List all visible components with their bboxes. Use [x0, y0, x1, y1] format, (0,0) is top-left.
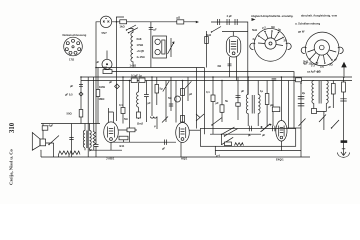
svg-text:3F: 3F — [284, 39, 287, 43]
resistor R20 vertical — [211, 95, 215, 102]
svg-text:50Ω: 50Ω — [67, 112, 73, 116]
S7 dot — [211, 124, 212, 125]
V2 top cap wire — [232, 32, 234, 37]
cap C8 — [340, 99, 346, 101]
wire y31.5 — [222, 31, 248, 33]
box switch S11 — [261, 124, 271, 132]
SA center key — [269, 42, 272, 45]
SA bottom arc — [256, 53, 285, 62]
power socket P1 pins — [65, 39, 80, 54]
pilot lamp L1 — [102, 59, 112, 69]
switch S3 — [49, 136, 59, 145]
SB center key — [320, 45, 325, 50]
resistor R8b on bus — [139, 78, 145, 83]
svg-text:µF 0,5: µF 0,5 — [65, 93, 73, 97]
svg-text:0,1µF 1µ: 0,1µF 1µ — [131, 74, 142, 78]
vertical x333 — [332, 81, 334, 109]
resistor R14 zigzag — [59, 151, 70, 155]
cap C9 filled — [341, 140, 348, 143]
V2 bottom leads — [230, 57, 237, 81]
svg-text:µF: µF — [70, 84, 74, 88]
switch S5 small — [162, 117, 168, 123]
cap C1c — [235, 19, 237, 25]
wire V1 left down — [96, 22, 100, 144]
right column vertical x301 — [300, 83, 302, 157]
resistor R10 vertical — [265, 94, 269, 105]
resistor R3 vertical in box — [162, 40, 165, 54]
speaker cone — [32, 133, 40, 151]
svg-text:2µ: 2µ — [302, 91, 305, 95]
power socket P1 outer — [64, 37, 83, 56]
cap C10 with rect — [42, 126, 48, 130]
switch S8 — [299, 119, 306, 127]
T3 bottom bar — [314, 103, 327, 130]
resistor R2 — [177, 20, 184, 24]
mid vertical x117 — [116, 17, 124, 121]
junction arrow on top wire — [196, 21, 199, 24]
vertical x273 — [272, 81, 274, 127]
V5 electrodes — [279, 126, 284, 139]
svg-text:5µ: 5µ — [278, 28, 281, 32]
resistor R19 — [119, 136, 128, 140]
wire y142.2 — [112, 141, 177, 143]
caps C7b — [298, 104, 305, 106]
mid vertical x238 — [237, 77, 239, 120]
vertical feeder x93.5 — [93, 77, 95, 124]
mid vertical x196.5 — [196, 68, 198, 129]
wire y150.6 — [215, 150, 301, 152]
svg-text:5Ω: 5Ω — [124, 117, 128, 121]
SA inner circle — [265, 38, 276, 49]
control box B2 — [200, 129, 295, 147]
ground wire — [343, 130, 345, 156]
svg-text:+6-Q5: +6-Q5 — [137, 49, 145, 53]
svg-text:ge W: ge W — [298, 30, 305, 34]
cap C1a — [218, 19, 220, 25]
R13 leads — [343, 77, 345, 130]
wire x206.5 down — [206, 31, 208, 68]
svg-text:4+15Ω: 4+15Ω — [137, 55, 146, 59]
box switch S4 — [222, 127, 238, 136]
svg-text:Netzanschlussung: Netzanschlussung — [63, 33, 87, 37]
SB pin labels — [303, 58, 338, 74]
svg-text:µF: µF — [248, 133, 252, 137]
mid vertical x222 — [221, 81, 223, 123]
resistor R4 vertical — [205, 37, 209, 44]
cap C11 — [165, 140, 167, 145]
mid vertical x123 — [122, 77, 124, 124]
V4 lead resistor upper — [181, 89, 185, 96]
svg-text:Abgleich-Empfindlichk. einstel: Abgleich-Empfindlichk. einstellg. — [251, 14, 294, 18]
resistor R18 on wire — [127, 128, 135, 132]
cap C18 between buses — [272, 79, 277, 80]
svg-text:µ2: µ2 — [189, 92, 193, 96]
T1 leads — [85, 124, 90, 151]
svg-text:17Ω: 17Ω — [69, 58, 75, 62]
component K4 — [312, 109, 317, 114]
svg-text:1MΩ: 1MΩ — [99, 85, 106, 89]
svg-text:5Ω: 5Ω — [329, 63, 333, 67]
output tube V5 envelope — [276, 121, 287, 142]
box inner wire — [210, 134, 261, 145]
svg-text:2µ: 2µ — [253, 37, 256, 41]
svg-text:0,1: 0,1 — [206, 90, 210, 94]
R19 leads — [123, 140, 125, 142]
cap CB3 on box top — [273, 126, 275, 131]
V5 right lead — [287, 127, 301, 129]
svg-text:µ 2: µ 2 — [262, 26, 266, 30]
R14 leads — [59, 155, 70, 158]
title: manufacturer text (rotated) — [9, 122, 17, 185]
svg-text:B11: B11 — [120, 144, 125, 148]
component K1 — [121, 108, 125, 114]
speaker top wire — [42, 124, 44, 140]
speaker driver — [40, 139, 46, 146]
resistor R12 vertical — [331, 84, 335, 95]
svg-text:5k: 5k — [225, 99, 228, 103]
cap C4 — [144, 95, 149, 97]
resistor R13 vertical — [342, 82, 346, 92]
svg-text:µF: µF — [162, 147, 166, 151]
svg-text:µF: µF — [96, 60, 100, 64]
switch S9 — [319, 115, 326, 123]
mid vertical x146.4 — [145, 81, 147, 123]
right IF transformer T3 — [312, 81, 328, 104]
SB radial spokes — [308, 50, 337, 63]
SA radial spokes — [258, 32, 283, 46]
svg-text:µF: µF — [334, 58, 338, 62]
svg-text:55/7: 55/7 — [102, 31, 108, 35]
svg-text:310: 310 — [9, 122, 16, 133]
switch S7 — [212, 118, 222, 126]
SB side ears — [301, 47, 343, 53]
svg-text:µF: µF — [241, 89, 245, 93]
mid vertical x176 — [175, 81, 177, 123]
bottom bus — [41, 156, 310, 158]
output transformer T1 — [83, 131, 91, 149]
SB pin dots — [309, 58, 333, 64]
S10 dot — [331, 127, 332, 128]
cap C3 diamond — [115, 84, 120, 89]
resistor R17 in y71.6 wire — [103, 70, 112, 74]
component K2 — [137, 112, 141, 118]
S1 contact dots — [126, 29, 129, 33]
V4 top lead — [182, 81, 184, 123]
V4 grid resistor — [181, 116, 185, 123]
speaker bottom wire — [46, 143, 54, 157]
cap C14 x96 to bus — [94, 144, 99, 157]
cap CB1 on box top — [249, 126, 251, 131]
rectifier tube V1 envelope — [100, 16, 111, 27]
svg-text:µF: µF — [262, 133, 266, 137]
wire box bottom-left to bus — [214, 146, 216, 155]
svg-text:1µ: 1µ — [260, 89, 263, 93]
svg-text:1MΩ: 1MΩ — [99, 97, 106, 101]
caps C7a — [298, 97, 305, 99]
wire coil top to switch — [129, 29, 134, 33]
SA pin labels — [252, 25, 287, 43]
svg-text:ca.4µF+µΩ: ca.4µF+µΩ — [307, 70, 322, 74]
wire y71.6 with corner — [112, 72, 294, 129]
SA pin dots — [258, 30, 284, 38]
resistor R8 on bus — [131, 78, 137, 83]
S2 dot — [211, 31, 212, 32]
svg-text:5µ: 5µ — [160, 87, 163, 91]
svg-text:µF: µF — [216, 101, 220, 105]
svg-text:E4Q/1: E4Q/1 — [276, 158, 284, 162]
cap C1b — [227, 19, 229, 25]
cap C2 on feeder — [79, 85, 83, 87]
IF transformer T2 — [246, 95, 260, 114]
antenna arrow — [342, 63, 346, 77]
mid vertical x129.5 — [129, 81, 131, 143]
pot arrow P5 — [185, 81, 191, 88]
switch S2 — [212, 27, 222, 33]
wire into box left — [189, 129, 200, 131]
junction diamond J3 — [79, 92, 83, 96]
winding R22 vertical zigzag — [93, 124, 96, 151]
wire caps row — [211, 22, 248, 95]
box zigzag R23 — [235, 143, 244, 146]
vertical x281 V5 top lead — [280, 77, 282, 121]
svg-text:5Ω: 5Ω — [168, 96, 172, 100]
resistor R5 vertical — [79, 110, 83, 118]
V2 grid structure — [229, 39, 237, 54]
tube socket diagram SA outer — [254, 28, 287, 52]
resistor R15 zigzag — [70, 151, 81, 155]
potentiometer P2 with arrow — [168, 38, 175, 57]
small rect K3 — [236, 103, 240, 106]
mid vertical x204.5 — [204, 68, 206, 135]
V4 electrodes — [179, 127, 185, 140]
T2 leads — [248, 77, 258, 126]
V3 top leads — [109, 108, 114, 122]
resistor R21 vertical — [220, 105, 224, 113]
V1 electrodes — [103, 18, 109, 22]
ground symbol anchor — [337, 152, 349, 158]
svg-text:µΩ: µΩ — [270, 103, 275, 107]
svg-text:µF: µF — [154, 28, 158, 32]
SB inner circle — [314, 40, 329, 55]
V3 bottom lead — [110, 143, 112, 151]
IF tube V2 envelope — [226, 36, 241, 57]
svg-text:6Ω: 6Ω — [218, 64, 222, 68]
jack J2 — [155, 49, 160, 54]
jack box B1 — [153, 36, 167, 58]
V3 electrodes — [108, 127, 115, 141]
L2 tap labels — [130, 37, 146, 68]
svg-text:1kΩ: 1kΩ — [120, 25, 126, 29]
resistor R6 — [96, 90, 100, 97]
svg-text:µF: µF — [109, 80, 113, 84]
label at x295 bus — [296, 78, 302, 82]
S4 dots — [221, 134, 225, 137]
svg-text:µF: µF — [148, 101, 152, 105]
wire V3 right y130 — [118, 129, 137, 131]
L1 lead — [106, 51, 108, 60]
svg-text:0,1: 0,1 — [119, 103, 123, 107]
svg-text:4µF: 4µF — [49, 124, 54, 128]
mid vertical x171 — [170, 77, 172, 111]
oscillator coil L2 — [131, 33, 133, 68]
svg-text:µ 4: µ 4 — [216, 154, 220, 158]
box lower diagonal S12 — [221, 137, 233, 145]
L1 filament dot — [106, 63, 108, 65]
mid vertical x188 — [187, 77, 189, 101]
SA side ears — [250, 43, 291, 49]
vertical x267 — [266, 81, 268, 127]
S3 dot — [48, 144, 49, 145]
jack J1 — [155, 39, 160, 44]
horizontal wire y123.5 — [41, 123, 100, 125]
switch S10 — [332, 120, 340, 128]
svg-text:3Ω: 3Ω — [271, 25, 275, 29]
wire y150.2 — [90, 149, 122, 151]
svg-text:Czeija, Nissl u. Co: Czeija, Nissl u. Co — [9, 148, 14, 185]
mid vertical x213 — [212, 77, 214, 134]
cap C15 on x150.9 — [149, 28, 153, 30]
S11 dots — [261, 124, 272, 128]
mid vertical x152 — [152, 77, 157, 129]
cap stack C17 — [69, 124, 73, 158]
svg-text:abschalt. Ausgleichstg. vom: abschalt. Ausgleichstg. vom — [301, 14, 338, 18]
svg-text:4µF 15Ω+µF: 4µF 15Ω+µF — [303, 62, 319, 66]
cap C16 — [169, 104, 173, 106]
coil L3 — [137, 92, 139, 107]
top wire from V1 to V2 node — [112, 21, 198, 23]
V4 bottom lead — [180, 142, 182, 157]
L3 leads — [138, 83, 140, 120]
mid vertical x98 — [97, 68, 99, 124]
resistor R1 — [120, 20, 127, 24]
pot arrow P3 — [163, 81, 169, 123]
svg-text:µΩ: µΩ — [177, 16, 182, 20]
svg-text:Ωm2: Ωm2 — [137, 122, 144, 126]
coil L4 small — [151, 117, 157, 119]
cap C5 — [236, 95, 241, 97]
SB bottom arc — [308, 57, 338, 66]
svg-text:1+5Ω: 1+5Ω — [130, 64, 138, 68]
V2 lead marks — [228, 64, 232, 66]
V5 bottom lead — [280, 141, 282, 150]
svg-text:µF: µF — [328, 105, 332, 109]
triode V4 envelope — [176, 123, 190, 143]
junction dots on buses — [80, 21, 345, 84]
tick on ground wire — [342, 148, 346, 150]
svg-text:µ: µ — [154, 125, 156, 128]
switch S6 — [196, 114, 204, 121]
svg-text:179Ω: 179Ω — [137, 43, 144, 47]
vertical x288.5 — [288, 81, 290, 129]
main bus wire y80.5 — [81, 80, 352, 82]
svg-text:5kΩ: 5kΩ — [252, 28, 258, 32]
svg-text:6A8: 6A8 — [137, 37, 142, 41]
bus wire y67.5 — [96, 67, 205, 69]
svg-text:4 µF: 4 µF — [227, 14, 233, 18]
electrolytic E1 — [175, 96, 181, 102]
bus left end up — [40, 150, 43, 157]
svg-text:4 5: 4 5 — [320, 65, 324, 69]
resistor R11 — [272, 107, 280, 112]
mid vertical x156.8 — [156, 77, 158, 105]
svg-text:u. Schallanordnung: u. Schallanordnung — [295, 22, 320, 26]
vertical wire x150.9 — [150, 22, 152, 68]
triode V3 envelope — [104, 122, 119, 143]
arrow right small — [252, 18, 256, 21]
resistor R9 vertical — [155, 85, 159, 94]
box resistor R16 — [225, 142, 232, 146]
tube socket diagram SB outer — [305, 32, 339, 57]
vertical feeder x88.2 — [87, 77, 89, 157]
wave switch S1 — [127, 25, 139, 33]
main bus wire y77 — [81, 76, 352, 78]
vertical feeder x81 — [80, 77, 82, 124]
